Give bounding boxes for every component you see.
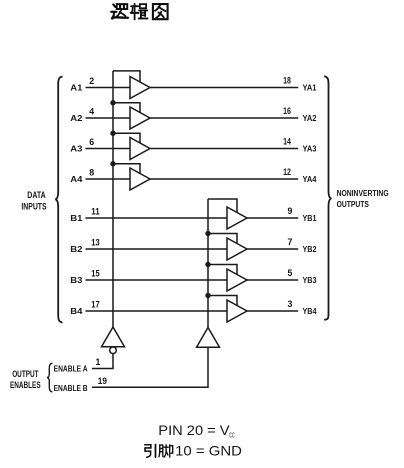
svg-text:14: 14: [283, 136, 291, 146]
enable buffer G1 (active-low, up-pointing): [102, 327, 125, 347]
svg-text:8: 8: [89, 167, 94, 177]
wire input B1: [86, 217, 228, 219]
svg-text:1: 1: [96, 357, 101, 367]
svg-text:5: 5: [288, 268, 293, 278]
wire output YA4: [150, 178, 298, 180]
svg-text:B3: B3: [70, 275, 82, 285]
svg-text:YA1: YA1: [303, 82, 317, 92]
svg-text:ENABLES: ENABLES: [10, 380, 41, 390]
wire input A2: [86, 117, 131, 119]
svg-text:10 = GND: 10 = GND: [175, 443, 242, 459]
svg-text:B4: B4: [70, 306, 82, 316]
svg-text:A4: A4: [70, 174, 82, 184]
wire enable loop U1A: [113, 71, 140, 82]
wire enable loop U1D: [113, 164, 140, 174]
net enable-B rail: [207, 199, 209, 328]
title 逻辑图 (Logic Diagram): [111, 4, 128, 18]
svg-text:4: 4: [89, 106, 94, 116]
buffer U2B: [227, 238, 247, 260]
wire output YA2: [150, 117, 298, 119]
svg-text:YB4: YB4: [303, 306, 317, 316]
right brace (NONINVERTING OUTPUTS): [324, 76, 331, 320]
buffer U2C: [227, 269, 247, 291]
wire ENABLE A to bubble: [92, 354, 113, 369]
svg-text:15: 15: [91, 268, 99, 278]
svg-text:18: 18: [283, 75, 291, 85]
wire enable loop U1C: [113, 133, 140, 143]
buffer U1D: [130, 168, 150, 190]
wire input B2: [86, 248, 228, 250]
junction dot U2C enable: [205, 262, 210, 267]
svg-text:INPUTS: INPUTS: [21, 201, 46, 211]
svg-text:11: 11: [91, 206, 99, 216]
svg-text:YB1: YB1: [303, 213, 317, 223]
svg-text:A3: A3: [70, 144, 82, 154]
junction dot U1D enable: [110, 161, 115, 166]
svg-text:13: 13: [91, 237, 99, 247]
svg-text:ENABLE A: ENABLE A: [54, 364, 88, 374]
svg-text:3: 3: [288, 299, 293, 309]
svg-text:7: 7: [288, 237, 293, 247]
wire input A4: [86, 178, 131, 180]
buffer U1A: [130, 77, 150, 99]
wire output YB4: [247, 310, 298, 312]
svg-text:16: 16: [283, 106, 291, 116]
svg-text:17: 17: [91, 299, 99, 309]
svg-text:B2: B2: [70, 244, 82, 254]
buffer U2D: [227, 300, 247, 322]
junction dot U1B enable: [110, 100, 115, 105]
svg-text:OUTPUT: OUTPUT: [12, 369, 39, 379]
svg-text:12: 12: [283, 167, 291, 177]
svg-text:6: 6: [89, 137, 94, 147]
wire output YB2: [247, 248, 298, 250]
buffer U1C: [130, 138, 150, 160]
svg-text:A1: A1: [70, 83, 82, 93]
wire enable loop U1B: [113, 103, 140, 113]
svg-text:PIN 20 = V: PIN 20 = V: [158, 423, 229, 438]
wire enable loop U2C: [208, 265, 237, 275]
wire input B4: [86, 310, 228, 312]
svg-text:YA2: YA2: [303, 113, 317, 123]
junction dot U2B enable: [205, 231, 210, 236]
note 引脚10 = GND: [145, 444, 156, 457]
svg-text:YA4: YA4: [303, 174, 317, 184]
svg-text:2: 2: [89, 76, 94, 86]
wire output YB1: [247, 217, 298, 219]
wire input A1: [86, 87, 131, 89]
junction dot U2D enable: [205, 293, 210, 298]
buffer U1B: [130, 107, 150, 129]
left brace (DATA INPUTS): [55, 77, 62, 323]
svg-text:NONINVERTING: NONINVERTING: [337, 189, 389, 198]
svg-text:CC: CC: [229, 431, 235, 440]
wire enable loop U2B: [208, 234, 237, 244]
wire output YA3: [150, 148, 298, 150]
junction dot U1C enable: [110, 131, 115, 136]
bubble on G1 input: [110, 347, 117, 354]
svg-text:9: 9: [288, 206, 293, 216]
brace (OUTPUT ENABLES): [47, 363, 52, 392]
wire enable loop U2A: [208, 199, 237, 213]
svg-text:OUTPUTS: OUTPUTS: [337, 200, 370, 209]
wire input A3: [86, 148, 131, 150]
wire output YA1: [150, 87, 298, 89]
svg-text:A2: A2: [70, 113, 82, 123]
svg-text:19: 19: [98, 376, 107, 386]
wire output YB3: [247, 279, 298, 281]
net enable-A rail: [112, 71, 114, 327]
svg-text:B1: B1: [70, 213, 82, 223]
svg-text:ENABLE B: ENABLE B: [54, 383, 88, 393]
svg-text:YB3: YB3: [303, 275, 317, 285]
svg-text:YA3: YA3: [303, 143, 317, 153]
wire ENABLE B to G2: [92, 347, 208, 387]
wire input B3: [86, 279, 228, 281]
svg-text:YB2: YB2: [303, 244, 317, 254]
svg-text:DATA: DATA: [27, 190, 46, 200]
wire enable loop U2D: [208, 296, 237, 306]
enable buffer G2 (active-high, up-pointing): [197, 328, 220, 348]
buffer U2A: [227, 207, 247, 229]
